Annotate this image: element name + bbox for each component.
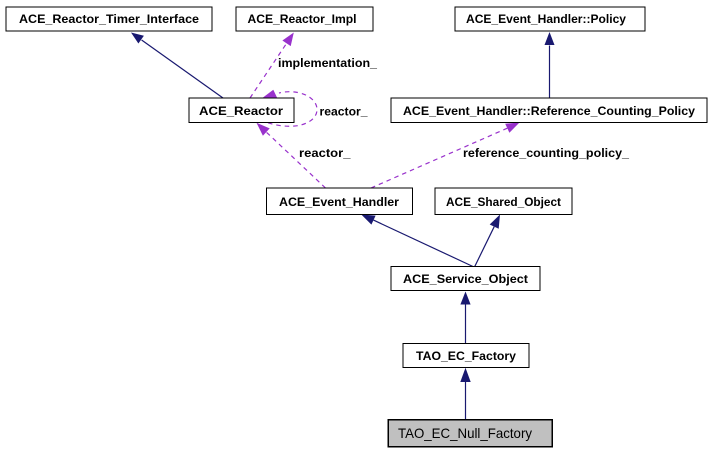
- node: class box ACE_Shared_Object: [435, 188, 572, 215]
- node: class box ACE_Event_Handler: [267, 188, 413, 215]
- svg-text:ACE_Shared_Object: ACE_Shared_Object: [446, 195, 561, 209]
- wire: inheritance edge ACE_Reactor to ACE_Reactor_Timer_Interface: [131, 33, 223, 99]
- node: class box ACE_Service_Object: [391, 267, 540, 291]
- wire: inheritance edge TAO_EC_Null_Factory to TAO_EC_Factory: [460, 368, 470, 420]
- svg-text:ACE_Reactor: ACE_Reactor: [199, 104, 283, 118]
- svg-text:ACE_Event_Handler: ACE_Event_Handler: [279, 195, 399, 209]
- node: class box TAO_EC_Factory: [403, 344, 529, 368]
- node: class box ACE_Reactor: [189, 98, 294, 123]
- wire: dashed edge reference_counting_policy_ ACE_Event_Handler to RCP: [371, 123, 520, 189]
- svg-text:ACE_Reactor_Impl: ACE_Reactor_Impl: [248, 12, 357, 26]
- node: class box ACE_Event_Handler::Policy: [455, 7, 645, 31]
- wire: inheritance edge RCP to ACE_Event_Handler::Policy: [545, 32, 555, 98]
- wire: dashed edge implementation_ ACE_Reactor to ACE_Reactor_Impl: [250, 33, 294, 99]
- wire: inheritance edge ACE_Service_Object to ACE_Event_Handler: [361, 215, 474, 268]
- svg-text:ACE_Event_Handler::Reference_C: ACE_Event_Handler::Reference_Counting_Po…: [403, 104, 695, 118]
- node: focal class box TAO_EC_Null_Factory (grey): [388, 420, 552, 447]
- node: class box ACE_Reactor_Impl: [236, 7, 373, 31]
- svg-text:implementation_: implementation_: [278, 56, 377, 70]
- wire: inheritance edge TAO_EC_Factory to ACE_Service_Object: [460, 292, 470, 344]
- node: class box ACE_Event_Handler::Reference_Counting_Policy: [391, 98, 707, 123]
- svg-text:ACE_Service_Object: ACE_Service_Object: [403, 272, 528, 286]
- svg-text:ACE_Reactor_Timer_Interface: ACE_Reactor_Timer_Interface: [19, 12, 199, 26]
- wire: inheritance edge ACE_Service_Object to ACE_Shared_Object: [475, 215, 501, 268]
- svg-text:reactor_: reactor_: [320, 105, 368, 119]
- node: class box ACE_Reactor_Timer_Interface: [6, 7, 212, 31]
- wire: dashed edge reactor_ ACE_Event_Handler to ACE_Reactor: [257, 123, 326, 188]
- svg-text:TAO_EC_Factory: TAO_EC_Factory: [416, 349, 516, 363]
- svg-text:reactor_: reactor_: [299, 146, 351, 160]
- svg-text:TAO_EC_Null_Factory: TAO_EC_Null_Factory: [398, 425, 532, 441]
- svg-text:reference_counting_policy_: reference_counting_policy_: [463, 146, 629, 160]
- svg-text:ACE_Event_Handler::Policy: ACE_Event_Handler::Policy: [466, 12, 626, 26]
- wire: self loop reactor_ on ACE_Reactor: [261, 90, 317, 126]
